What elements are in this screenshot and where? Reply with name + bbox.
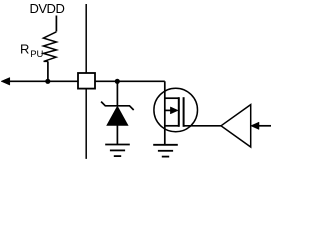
zener diode wire from junction <box>116 82 118 105</box>
wire resistor bottom to junction <box>47 61 49 81</box>
ground under zener <box>105 145 130 157</box>
wire gate to buffer <box>184 125 221 127</box>
zener diode anode triangle <box>107 106 128 125</box>
svg-text:PU: PU <box>30 49 43 60</box>
transistor Q1 drain tap <box>165 97 179 99</box>
transistor Q1 bulk arrow <box>165 107 178 114</box>
wire main horizontal bus <box>9 80 165 82</box>
input arrowhead <box>251 122 259 129</box>
wire drain lead vertical <box>164 81 166 144</box>
pin pad box <box>78 73 95 89</box>
zener diode cathode bar <box>101 102 134 110</box>
svg-text:DVDD: DVDD <box>30 1 65 16</box>
resistor RPU <box>43 32 56 62</box>
junction dot right <box>115 79 120 84</box>
junction dot left <box>45 79 50 84</box>
transistor Q1 source tap <box>165 125 179 127</box>
label RPU <box>20 42 44 60</box>
svg-text:R: R <box>20 42 29 57</box>
wire from DVDD to resistor top <box>55 16 57 32</box>
ground under transistor <box>153 145 178 157</box>
buffer U1 triangle <box>221 105 251 147</box>
zener diode wire to ground <box>116 125 118 144</box>
transistor Q1 gate bar <box>183 97 185 127</box>
transistor Q1 NMOS circle <box>154 88 198 132</box>
transistor Q1 channel bar <box>178 97 180 127</box>
left I/O arrowhead <box>1 78 10 86</box>
wire input from right edge <box>259 125 272 127</box>
net label DVDD <box>30 1 65 16</box>
IC boundary line <box>85 4 87 159</box>
